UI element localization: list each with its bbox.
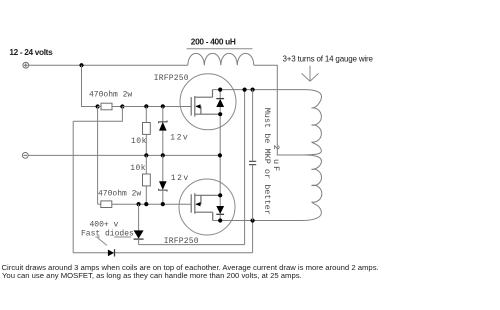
mosfet Q1 body diode xyxy=(216,90,224,115)
wire Q1 source down to ground and Q2 source xyxy=(219,114,221,195)
node R1 right xyxy=(120,104,124,108)
node drain Q2 diode xyxy=(218,218,222,222)
wire top positive rail xyxy=(29,64,188,66)
node R4 bottom xyxy=(144,202,148,206)
node junction on +rail xyxy=(79,63,83,67)
svg-text:400+ v: 400+ v xyxy=(90,220,119,229)
wire R1-left down to R2-left xyxy=(97,107,99,205)
node Q2 source xyxy=(218,193,222,197)
inductor L1 200-400uH xyxy=(188,53,254,65)
terminal + positive xyxy=(23,62,29,68)
svg-text:12v: 12v xyxy=(171,174,190,183)
node drain Q1 diode xyxy=(218,88,222,92)
mosfet Q1 substrate arrow xyxy=(195,104,200,108)
resistor R2 470ohm 2w xyxy=(98,201,192,208)
node D1 bottom on ground xyxy=(161,153,165,157)
svg-text:12 - 24 volts: 12 - 24 volts xyxy=(9,47,53,57)
svg-text:2 uF: 2 uF xyxy=(271,145,281,173)
wire ground rail xyxy=(28,154,220,156)
svg-text:12v: 12v xyxy=(170,133,189,142)
wire top-gate node down and left to x73 xyxy=(73,107,122,122)
fast diode D3 vertical xyxy=(134,204,144,244)
resistor R3 10k xyxy=(143,107,151,156)
mosfet Q2 symbol xyxy=(191,193,220,220)
wire x73 vertical down to bottom diode row xyxy=(72,121,74,252)
wire bottom loop to bottom drain xyxy=(73,221,252,253)
mosfet Q1 circle xyxy=(180,74,236,130)
wire top gate rail xyxy=(122,106,191,108)
wire bottom drain rail xyxy=(213,220,303,222)
wire from +rail down to 470ohm R1 xyxy=(82,65,98,106)
node R1 left xyxy=(96,104,100,108)
zener diode D2 12v xyxy=(159,155,167,204)
node Q1 source xyxy=(218,112,222,116)
mosfet Q1 symbol xyxy=(191,90,220,117)
wire top drain rail xyxy=(213,89,304,91)
svg-text:470ohm 2w: 470ohm 2w xyxy=(98,190,141,199)
node cap bottom xyxy=(251,218,255,222)
mosfet Q2 substrate arrow xyxy=(195,202,200,206)
wire inductor to center tap feed xyxy=(254,65,303,155)
node 10k R3 top xyxy=(144,104,148,108)
svg-text:200 - 400 uH: 200 - 400 uH xyxy=(191,36,236,46)
node cap top xyxy=(251,88,255,92)
work coil L2 lower half xyxy=(303,155,322,221)
work coil L2 upper half xyxy=(303,90,322,155)
svg-text:10k: 10k xyxy=(130,164,146,173)
wire D3 cathode to x244 vertical xyxy=(139,244,245,246)
svg-text:470ohm 2w: 470ohm 2w xyxy=(89,90,132,99)
resistor R1 470ohm 2w xyxy=(98,103,123,110)
arrow to work coil xyxy=(302,66,319,82)
svg-text:10k: 10k xyxy=(131,137,147,146)
mosfet Q2 body diode xyxy=(216,195,224,220)
underline for 200-400 uH xyxy=(187,48,253,50)
fast diode D4 horizontal xyxy=(108,249,115,256)
node fast diode D3 top xyxy=(137,202,141,206)
terminal - negative xyxy=(22,153,28,159)
resistor R4 10k xyxy=(143,155,151,204)
node cap line top xyxy=(243,88,247,92)
wire x244 vertical up to top drain xyxy=(244,90,246,245)
zener diode D1 12v xyxy=(159,107,167,156)
node ground at x220 xyxy=(218,153,222,157)
svg-text:3+3 turns of 14 gauge wire: 3+3 turns of 14 gauge wire xyxy=(283,55,374,64)
node D2 bottom xyxy=(161,202,165,206)
svg-text:IRFP250: IRFP250 xyxy=(164,237,199,246)
svg-text:IRFP250: IRFP250 xyxy=(154,74,189,83)
underline marks under Fast diodes xyxy=(95,236,131,238)
capacitor C1 2uF xyxy=(249,90,256,221)
mosfet Q2 circle xyxy=(179,179,235,235)
svg-text:You can use any MOSFET, as lon: You can use any MOSFET, as long as they … xyxy=(2,271,302,280)
leader line to bottom diode xyxy=(97,238,106,246)
node zener D1 top xyxy=(161,104,165,108)
node R3 bottom on ground xyxy=(144,153,148,157)
